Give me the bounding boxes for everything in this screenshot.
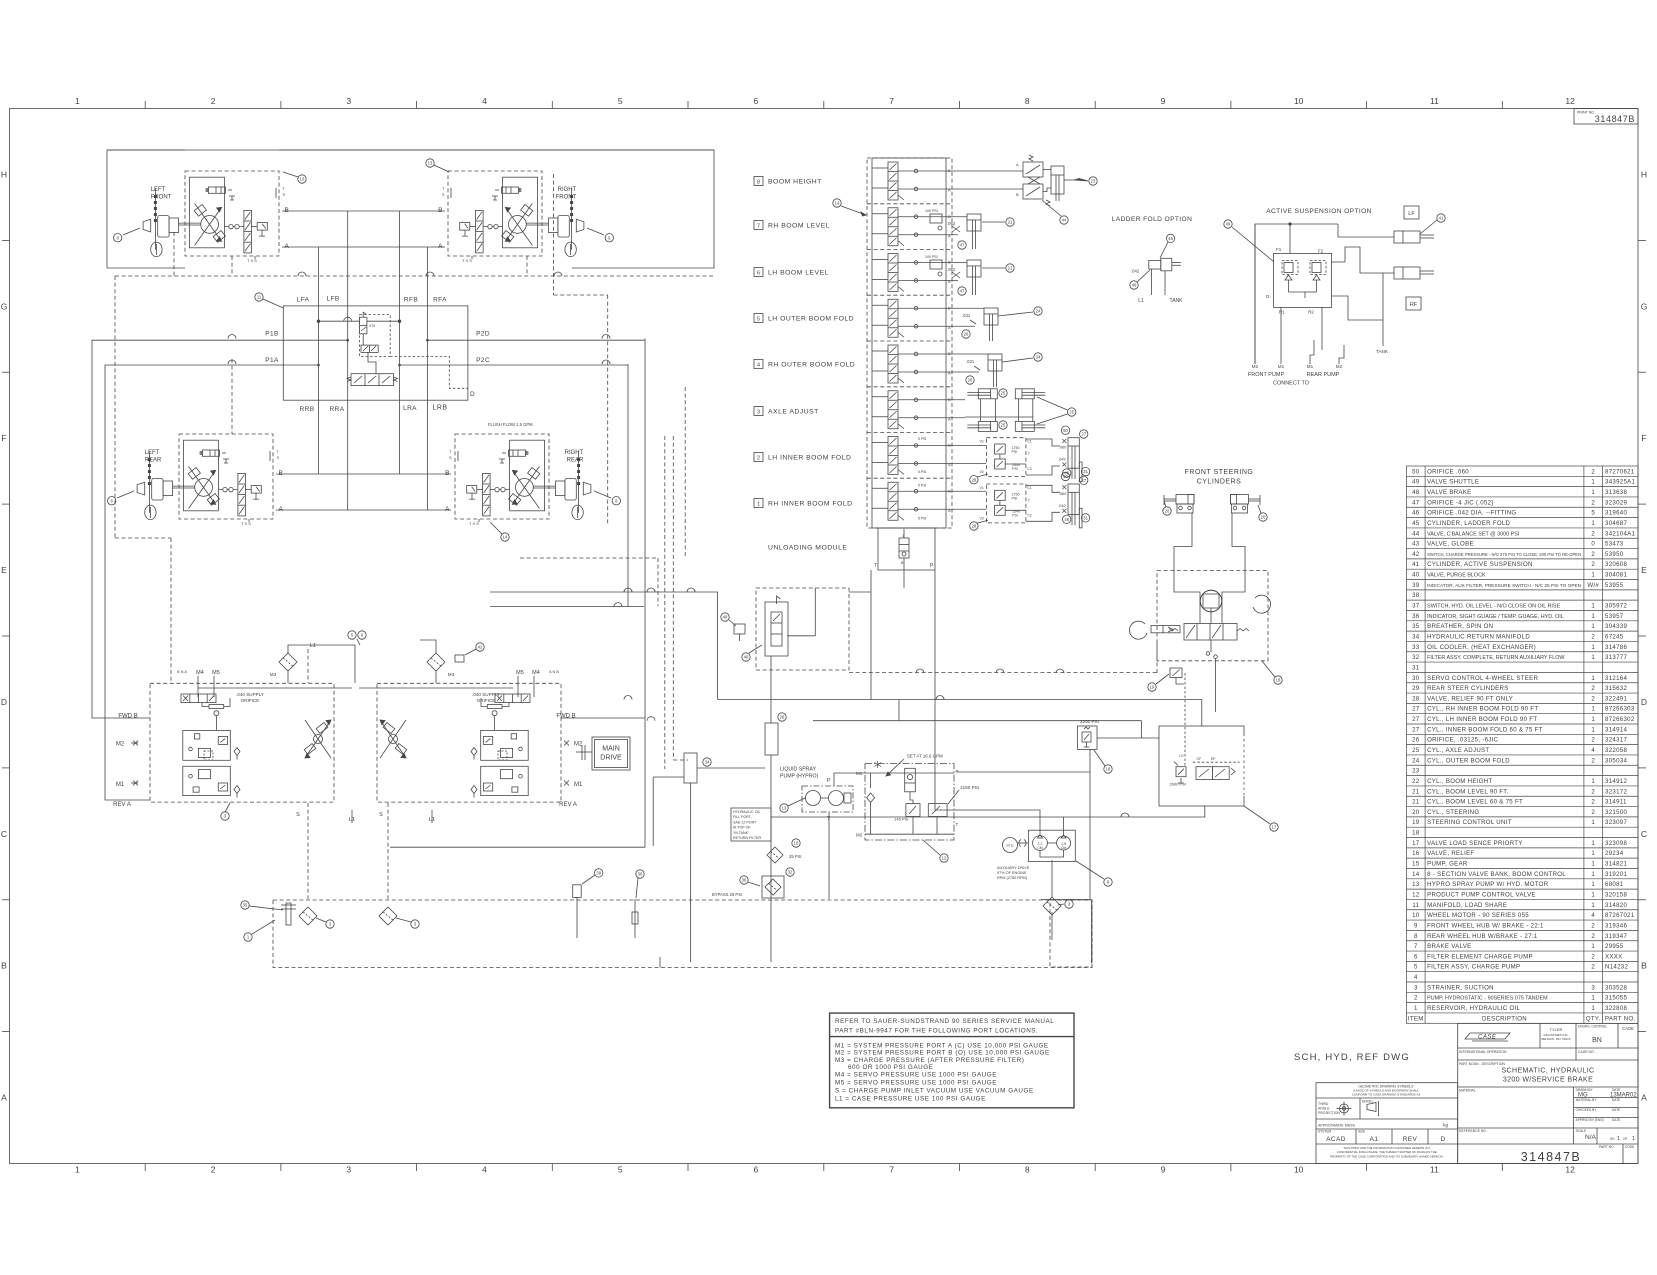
svg-text:6: 6 [754,96,759,106]
svg-text:B: B [948,488,951,493]
svg-text:11: 11 [1430,1165,1439,1175]
drain dashed bus [115,275,714,277]
svg-text:F: F [1,433,6,443]
svg-text:2: 2 [1591,561,1595,568]
manifold port columns [318,247,320,474]
boom level circuit at y=212 [925,209,960,232]
svg-text:36: 36 [1412,613,1420,620]
svg-text:31: 31 [1412,664,1420,671]
svg-text:8: 8 [111,498,114,503]
svg-text:46: 46 [1132,283,1137,288]
svg-text:B: B [948,214,951,219]
svg-text:M4: M4 [532,670,540,676]
svg-text:B: B [948,351,951,356]
svg-text:S: S [442,193,445,197]
svg-text:A: A [1641,1093,1647,1103]
third angle projection symbol [1337,1101,1379,1116]
svg-text:304339: 304339 [1605,623,1627,630]
svg-text:.062: .062 [947,267,956,272]
svg-text:29234: 29234 [1605,850,1624,857]
svg-text:2: 2 [1591,809,1595,816]
relief valve near steering (item 16) [1170,668,1182,678]
svg-text:PRINT NO.: PRINT NO. [1577,111,1595,115]
svg-text:343925A1: 343925A1 [1605,479,1635,486]
svg-text:314821: 314821 [1605,861,1627,868]
svg-text:27: 27 [1412,726,1420,733]
svg-text:CYL., BOOM HEIGHT: CYL., BOOM HEIGHT [1427,778,1492,785]
svg-text:322808: 322808 [1605,1005,1627,1012]
valve section 6: LH BOOM LEVEL [867,250,967,292]
svg-text:VALVE, GLOBE: VALVE, GLOBE [1427,541,1474,548]
wheel motor left front (item 10) [114,171,290,263]
svg-text:68081: 68081 [1605,881,1624,888]
svg-text:18: 18 [1276,678,1281,683]
svg-text:40: 40 [1412,572,1420,579]
svg-text:RIGHT: RIGHT [565,450,584,456]
hydrostatic pump right (item 2) [359,683,561,802]
svg-text:M2 = SYSTEM PRESSURE PORT B (O: M2 = SYSTEM PRESSURE PORT B (O) USE 10,0… [835,1049,1050,1056]
svg-text:FRONT PUMP: FRONT PUMP [1248,372,1285,378]
svg-text:LS: LS [1179,754,1184,758]
boom level cylinder (item 21) [967,260,981,277]
svg-text:304081: 304081 [1605,572,1627,579]
svg-text:.062: .062 [947,221,956,226]
svg-text:LFB: LFB [326,296,339,303]
svg-text:25: 25 [1001,423,1006,428]
svg-text:.042: .042 [1058,457,1067,462]
svg-text:2: 2 [1591,933,1595,940]
svg-text:PART #BLN-9947 FOR THE FOLLOWI: PART #BLN-9947 FOR THE FOLLOWING PORT LO… [835,1028,1038,1035]
svg-text:ORIFICE .060: ORIFICE .060 [1427,468,1469,475]
return manifold (item 34) [684,753,697,783]
svg-text:FRONT: FRONT [556,194,577,200]
svg-text:1: 1 [1591,726,1595,733]
svg-text:5: 5 [1414,964,1418,971]
svg-text:M1 = SYSTEM PRESSURE PORT A (C: M1 = SYSTEM PRESSURE PORT A (C) USE 10,0… [835,1042,1049,1049]
svg-text:2: 2 [211,1165,216,1175]
svg-text:LADDER FOLD OPTION: LADDER FOLD OPTION [1112,216,1192,223]
svg-text:INDICATOR, AUX FILTER, PRESSUR: INDICATOR, AUX FILTER, PRESSURE SWITCH -… [1427,583,1581,588]
valve section 4: RH OUTER BOOM FOLD [867,341,988,383]
svg-text:20: 20 [1261,515,1266,520]
outer boom fold cylinder (item 24) [984,308,998,325]
svg-text:33: 33 [1412,644,1420,651]
svg-text:27: 27 [1081,478,1086,483]
svg-text:T: T [277,450,280,454]
svg-text:49: 49 [1412,479,1420,486]
svg-text:FWD B: FWD B [556,714,575,720]
svg-text:40: 40 [744,655,749,660]
svg-text:M1: M1 [1278,364,1285,369]
svg-text:B: B [1641,961,1647,971]
hypro P line to flow control [834,773,865,786]
svg-text:ORIFICE: ORIFICE [241,698,260,703]
svg-text:9: 9 [608,235,611,240]
suction filters in reservoir (item 3) [299,907,317,925]
svg-text:STEERING CONTROL UNIT: STEERING CONTROL UNIT [1427,819,1512,826]
svg-text:1: 1 [1591,995,1595,1002]
svg-text:38: 38 [1412,592,1420,599]
boom level cylinder (item 21) [967,214,981,231]
svg-text:39: 39 [1412,582,1420,589]
steering cylinder right (item 20) [1231,495,1261,514]
axle adjust link lines [979,399,981,422]
svg-text:2: 2 [1591,964,1595,971]
svg-text:CYL., RH INNER BOOM FOLD 90 FT: CYL., RH INNER BOOM FOLD 90 FT [1427,706,1538,713]
svg-text:47: 47 [960,289,965,294]
manifold port labels [265,296,490,414]
svg-text:2: 2 [1591,685,1595,692]
svg-text:A: A [438,243,443,250]
main drive shaft lines [576,751,592,753]
svg-text:312164: 312164 [1605,675,1627,682]
reservoir bottom drain mark [659,957,661,968]
svg-text:1: 1 [1591,572,1595,579]
svg-text:C2: C2 [1027,467,1032,471]
svg-text:600 OR 1000 PSI GAUGE: 600 OR 1000 PSI GAUGE [848,1064,933,1071]
svg-text:4: 4 [1591,747,1595,754]
CASE logo [1465,1033,1510,1041]
section label 8 [754,177,822,186]
pilot valve (item 49) [734,624,745,634]
steering return bus [1089,749,1091,772]
svg-text:1: 1 [1591,881,1595,888]
svg-text:1: 1 [1591,623,1595,630]
svg-text:CYLINDER, LADDER FOLD: CYLINDER, LADDER FOLD [1427,520,1510,527]
svg-text:LF: LF [1408,211,1415,217]
svg-text:49: 49 [1226,222,1231,227]
temp indicator (item 36) [634,899,636,938]
svg-text:P: P [930,563,934,569]
svg-text:8: 8 [1025,1165,1030,1175]
parts list table [1407,466,1639,1023]
svg-text:T: T [283,187,286,191]
svg-text:1: 1 [1591,943,1595,950]
svg-text:TANK: TANK [1170,298,1184,304]
svg-text:ACTIVE SUSPENSION OPTION: ACTIVE SUSPENSION OPTION [1266,208,1372,215]
box B wires [1097,737,1159,739]
svg-text:INTERNATIONAL OPERATION: INTERNATIONAL OPERATION [1459,1050,1507,1054]
svg-text:8: 8 [615,498,618,503]
svg-text:SCHEMATIC, HYDRAULIC: SCHEMATIC, HYDRAULIC [1501,1068,1594,1075]
axle adjust cylinders (item 25) [978,389,997,399]
charge filters above pumps (item 5) [279,653,297,671]
svg-text:CYLINDERS: CYLINDERS [1197,479,1242,486]
svg-text:315632: 315632 [1605,685,1627,692]
svg-text:B: B [1,961,7,971]
svg-text:REAR STEER CYLINDERS: REAR STEER CYLINDERS [1427,685,1509,692]
filter assy return (item 32) [765,723,778,755]
svg-text:RPM (2780 RPM): RPM (2780 RPM) [997,876,1028,880]
steering lines down [1174,513,1192,572]
svg-text:PTO: PTO [1007,844,1014,848]
svg-text:VALVE, C'BALANCE SET @ 3000 PS: VALVE, C'BALANCE SET @ 3000 PSI [1427,531,1519,537]
svg-text:B: B [948,443,951,448]
section label 2 [754,453,851,462]
center vertical/horizontal runs [690,783,692,962]
svg-text:.075: .075 [368,324,375,328]
svg-text:26: 26 [780,715,785,720]
svg-text:14: 14 [1412,871,1420,878]
section label 5 [754,314,854,323]
svg-text:SAE-12 PORT: SAE-12 PORT [733,820,757,824]
svg-text:PSI: PSI [1012,450,1018,454]
svg-text:S: S [449,456,452,460]
svg-text:19: 19 [1412,819,1420,826]
svg-text:.040 SUPPLY: .040 SUPPLY [472,692,500,697]
svg-text:E: E [1,565,7,575]
svg-text:1: 1 [1591,840,1595,847]
svg-text:REV A: REV A [113,802,131,808]
svg-text:314912: 314912 [1605,778,1627,785]
svg-text:REAR WHEEL HUB W/BRAKE - 27:1: REAR WHEEL HUB W/BRAKE - 27:1 [1427,933,1538,940]
svg-text:1: 1 [902,534,904,538]
svg-text:3: 3 [1591,984,1595,991]
svg-text:MAIN: MAIN [602,746,620,753]
svg-text:PSI: PSI [1012,513,1018,517]
svg-text:87267021: 87267021 [1605,912,1635,919]
svg-text:26: 26 [964,332,969,337]
svg-text:CONFORM TO CASE DRAWING ST: CONFORM TO CASE DRAWING STANDARDS-A3 [1352,1092,1421,1096]
section label 7 [754,221,830,230]
svg-text:SERVO CONTROL 4-WHEEL STEER: SERVO CONTROL 4-WHEEL STEER [1427,675,1538,682]
wires rear motors to manifold [276,473,451,475]
ref 13 leader [426,159,434,167]
svg-text:C2: C2 [1027,513,1032,517]
svg-text:S: S [283,193,286,197]
svg-text:REV: REV [1403,1136,1418,1143]
svg-text:G: G [1641,301,1648,311]
svg-text:FRONT: FRONT [151,194,172,200]
svg-text:VALVE LOAD SENCE PRIORTY: VALVE LOAD SENCE PRIORTY [1427,840,1523,847]
svg-text:VALVE, PURGE BLOCK: VALVE, PURGE BLOCK [1427,573,1486,579]
svg-text:PSI: PSI [1012,496,1018,500]
unloading module outlet section [874,528,935,570]
long return buses [490,592,718,700]
svg-text:46: 46 [1064,517,1069,522]
svg-text:321500: 321500 [1605,809,1627,816]
svg-text:305034: 305034 [1605,757,1627,764]
svg-text:B: B [901,561,904,565]
svg-text:LEFT: LEFT [145,450,160,456]
svg-text:CYL., INNER BOOM FOLD 60 & 75: CYL., INNER BOOM FOLD 60 & 75 FT [1427,726,1543,733]
svg-text:A: A [1,1093,7,1103]
svg-text:A: A [948,371,951,376]
svg-text:T: T [1028,452,1031,456]
svg-text:ITEM: ITEM [1408,1015,1424,1022]
svg-text:P: P [827,778,831,784]
svg-text:53950: 53950 [1605,551,1624,558]
svg-text:32: 32 [1412,654,1420,661]
svg-text:10: 10 [300,177,305,182]
svg-text:MANIFOLD, LOAD SHARE: MANIFOLD, LOAD SHARE [1427,902,1507,909]
svg-text:1: 1 [1591,891,1595,898]
svg-text:S: S [379,812,383,818]
svg-text:V2: V2 [980,470,984,474]
svg-text:ANGLE: ANGLE [1318,1107,1330,1111]
svg-text:3: 3 [1414,984,1418,991]
valve section 8: BOOM HEIGHT [872,162,1023,200]
svg-text:F1: F1 [1276,247,1282,252]
svg-text:FWD B: FWD B [118,714,137,720]
svg-text:320608: 320608 [1605,561,1627,568]
svg-text:MATERIAL: MATERIAL [1459,1089,1476,1093]
svg-text:M1: M1 [1307,364,1314,369]
svg-text:1: 1 [757,502,760,508]
wheel motor right front (item 10) [438,171,613,263]
svg-text:10: 10 [1412,912,1420,919]
svg-text:23: 23 [1412,768,1420,775]
svg-text:CASE: CASE [1478,1035,1497,1041]
svg-text:319347: 319347 [1605,933,1627,940]
svg-text:2: 2 [211,96,216,106]
svg-text:CYL., LH INNER BOOM FOLD 90 FT: CYL., LH INNER BOOM FOLD 90 FT [1427,716,1537,723]
wheel motor left rear (item 10) [108,434,284,526]
suspension feed lines [1254,224,1256,364]
svg-text:44: 44 [1062,218,1067,223]
inner boom fold cylinder (item 27) [1058,484,1082,528]
svg-text:1: 1 [1591,706,1595,713]
M4 M5 stub lines [197,676,199,697]
svg-text:A: A [948,325,951,330]
svg-text:7: 7 [889,1165,894,1175]
svg-text:39: 39 [596,871,601,876]
svg-text:87266302: 87266302 [1605,716,1635,723]
svg-text:ACAD: ACAD [1326,1136,1346,1143]
hydraulic oil fill port note [731,808,771,841]
svg-text:RFA: RFA [433,297,447,304]
svg-text:.031: .031 [966,359,975,364]
svg-text:320158: 320158 [1605,891,1627,898]
svg-text:DATE: DATE [1612,1108,1620,1112]
svg-text:100 PSI: 100 PSI [925,209,938,213]
svg-text:3: 3 [329,922,332,927]
svg-text:S = CHARGE PUMP INLET VACUUM: S = CHARGE PUMP INLET VACUUM USE VACUUM … [835,1088,1034,1095]
wire A crossbar front motors [282,246,445,248]
svg-text:2: 2 [1591,468,1595,475]
svg-text:CM: CM [1037,846,1042,850]
regulator return to reservoir [1089,772,1091,899]
svg-text:REFERENCE NO.: REFERENCE NO. [1459,1129,1487,1133]
svg-text:4: 4 [757,363,760,369]
svg-text:LRA: LRA [403,405,417,412]
svg-text:25: 25 [1069,410,1074,415]
svg-text:FILL PORT,: FILL PORT, [733,815,752,819]
svg-text:41: 41 [1439,216,1444,221]
svg-text:5 PSI: 5 PSI [918,516,926,520]
svg-text:PART NO.: PART NO. [1599,1145,1615,1149]
svg-text:12: 12 [1412,891,1420,898]
svg-text:SYSTEM: SYSTEM [1318,1130,1331,1134]
svg-text:RIGHT: RIGHT [558,187,577,193]
svg-text:24: 24 [1412,757,1420,764]
svg-text:REFER TO SAUER-SUNDSTRAND 90 S: REFER TO SAUER-SUNDSTRAND 90 SERIES SERV… [835,1018,1054,1025]
svg-text:EF: EF [1211,757,1216,761]
svg-text:314911: 314911 [1605,799,1627,806]
svg-text:100 PSI: 100 PSI [925,255,938,259]
svg-text:L1 = CASE PRESSURE USE 100 P: L1 = CASE PRESSURE USE 100 PSI GAUGE [835,1095,986,1102]
svg-text:1: 1 [75,1165,80,1175]
svg-text:HYDRAULIC RETURN MANIFOLD: HYDRAULIC RETURN MANIFOLD [1427,633,1530,640]
svg-text:R1: R1 [1279,310,1285,315]
svg-text:CYL., OUTER BOOM FOLD: CYL., OUTER BOOM FOLD [1427,757,1510,764]
svg-text:49: 49 [723,615,728,620]
svg-text:B: B [285,207,289,214]
inner boom fold circuit 2 [918,437,1060,477]
svg-text:11: 11 [257,295,262,300]
svg-text:DRAWN BY: DRAWN BY [1576,1088,1594,1092]
svg-text:E: E [1641,565,1647,575]
svg-text:REAR PUMP: REAR PUMP [1307,372,1340,378]
section label 3 [754,407,819,416]
svg-text:A: A [948,462,951,467]
svg-text:B: B [948,260,951,265]
svg-text:13: 13 [1412,881,1420,888]
svg-text:M3: M3 [270,672,277,677]
svg-text:SWITCH, HYD. OIL LEVEL - N/O C: SWITCH, HYD. OIL LEVEL - N/O CLOSE ON OI… [1427,604,1560,610]
inner boom fold cylinder (item 27) [1058,438,1082,482]
svg-text:L1: L1 [310,643,316,649]
svg-text:10: 10 [1294,1165,1304,1175]
svg-text:FRONT STEERING: FRONT STEERING [1185,469,1254,476]
svg-text:1: 1 [1591,654,1595,661]
pilot cylinder left [1151,626,1180,633]
svg-text:CAGE NO.: CAGE NO. [1578,1050,1595,1054]
svg-text:4: 4 [482,96,487,106]
svg-text:CYLINDER, ACTIVE SUSPENSION: CYLINDER, ACTIVE SUSPENSION [1427,561,1533,568]
level switch indicator (item 39) [573,885,582,898]
svg-text:T X S: T X S [247,258,257,263]
svg-text:314820: 314820 [1605,902,1627,909]
wire B crossbar front motors [282,210,445,212]
svg-text:314786: 314786 [1605,644,1627,651]
connect to pump labels [1252,364,1343,369]
pump leader refs [221,812,229,820]
svg-text:.031: .031 [962,313,971,318]
svg-text:B: B [279,470,283,477]
svg-text:STRAINER, SUCTION: STRAINER, SUCTION [1427,984,1494,991]
svg-text:28: 28 [972,477,977,482]
svg-text:RRB: RRB [300,406,315,413]
right reservoir compartment [1050,900,1092,967]
svg-text:MATERIAL BY: MATERIAL BY [1576,1098,1598,1102]
svg-text:M2: M2 [1252,364,1259,369]
S and L1 drop lines [307,803,309,899]
reservoir dashed outline (item 1) [273,900,1092,968]
svg-text:M3 = CHARGE PRESSURE (AFTER PR: M3 = CHARGE PRESSURE (AFTER PRESSURE FIL… [835,1057,1024,1064]
TANK line [1321,308,1323,351]
svg-text:3: 3 [346,1165,351,1175]
svg-text:3: 3 [414,922,417,927]
section label 4 [754,360,855,369]
dashed LS bus under steering [849,672,1157,674]
svg-text:1: 1 [75,96,80,106]
svg-text:RESERVOIR, HYDRAULIC OIL: RESERVOIR, HYDRAULIC OIL [1427,1005,1520,1012]
svg-text:1: 1 [1591,716,1595,723]
svg-text:29: 29 [1412,685,1420,692]
svg-text:19: 19 [1150,685,1155,690]
svg-text:B: B [1016,192,1019,197]
svg-text:1: 1 [1591,778,1595,785]
svg-text:2: 2 [1591,922,1595,929]
boom level circuit at y=258 [925,255,960,278]
svg-text:20: 20 [1412,809,1420,816]
svg-text:PRODUCT PUMP CONTROL VALVE: PRODUCT PUMP CONTROL VALVE [1427,891,1536,898]
svg-text:47: 47 [1412,499,1420,506]
svg-text:27: 27 [1081,432,1086,437]
svg-text:VALVE SHUTTLE: VALVE SHUTTLE [1427,479,1479,486]
svg-text:XXXX: XXXX [1605,953,1622,960]
